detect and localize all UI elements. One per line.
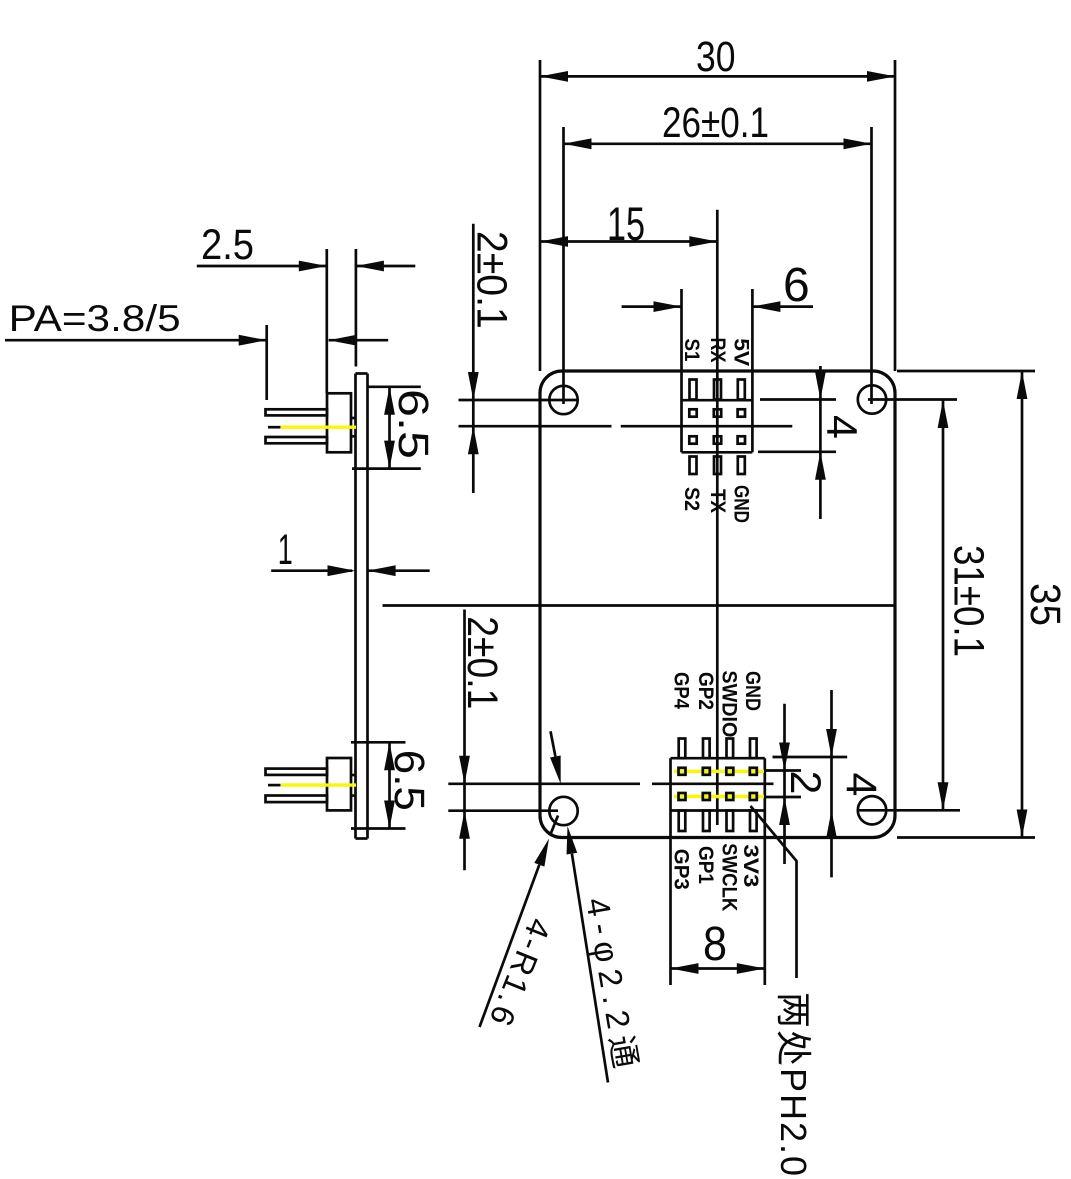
side top pin 1 (266, 409, 328, 415)
svg-text:6.5: 6.5 (385, 750, 433, 811)
dim 6.5 bottom: line + arrows (388, 742, 391, 828)
svg-text:1: 1 (278, 526, 293, 574)
svg-text:两处PH2.0: 两处PH2.0 (773, 992, 814, 1176)
header box sides (extend down as 8-dim extensions) (669, 758, 672, 985)
svg-text:5V: 5V (730, 338, 753, 366)
dim 31±0.1: line + arrows (942, 400, 945, 810)
dim 2±0.1 top: line + arrows (472, 224, 475, 493)
hole top-right (858, 385, 886, 413)
side bottom connector contact strip (351, 774, 356, 777)
svg-text:S2: S2 (680, 487, 703, 511)
side bottom pin 2 (266, 796, 328, 803)
side top connector contact strip (351, 417, 356, 420)
dim 15: line + arrows (540, 240, 717, 243)
side bottom connector block (327, 758, 351, 810)
bottom pads (679, 811, 686, 832)
pin squares row1 (679, 768, 686, 775)
dim PA=3.8/5: line + arrows (5, 339, 267, 342)
svg-text:GP1: GP1 (694, 846, 717, 884)
dim 4 bottom: line + arrows (830, 690, 833, 877)
dim 8: line + arrows (671, 967, 765, 970)
svg-text:26±0.1: 26±0.1 (662, 99, 769, 147)
svg-text:TX: TX (706, 489, 729, 513)
svg-text:4: 4 (837, 773, 885, 797)
header row centerline (459, 425, 612, 428)
leader 4-φ2.2通 line + arrow (572, 854, 608, 1083)
svg-text:GND: GND (741, 671, 764, 711)
dim 35: extension lines (897, 370, 1035, 373)
dim 4 top: line + arrows (819, 366, 822, 519)
svg-text:2.5: 2.5 (201, 221, 254, 269)
svg-text:2: 2 (781, 771, 829, 795)
dim 35: line + arrows (1021, 371, 1024, 838)
pin squares row1 (689, 409, 696, 416)
dim 6: line + arrows (622, 305, 682, 308)
pin squares row2 (689, 436, 696, 443)
board outline (rounded rect 30x35) (540, 371, 895, 838)
svg-text:8: 8 (703, 918, 727, 971)
mid-board seam line (383, 604, 895, 607)
dim 6.5 top: extension lines (368, 385, 421, 388)
hole bottom-right (858, 796, 886, 824)
dim 4 bottom: extension line (773, 756, 848, 759)
side board edge left (354, 374, 357, 839)
svg-text:6.5: 6.5 (389, 389, 437, 459)
dim 2.5: extension lines (325, 249, 328, 393)
dim 1: line + arrows (271, 569, 352, 572)
header box horizontals (671, 757, 765, 760)
side top pin dash (268, 426, 281, 429)
centerline h bottom-right hole + 31 extension (858, 809, 960, 812)
dim 6.5 bottom: extension lines (351, 741, 406, 744)
header vertical centerline (716, 210, 719, 825)
svg-text:2±0.1: 2±0.1 (468, 231, 516, 329)
svg-text:S1: S1 (680, 339, 703, 362)
header row centerline (448, 782, 640, 785)
side board bottom end (356, 837, 368, 840)
leader R1.6 overshoot inside hole (551, 816, 558, 834)
svg-text:30: 30 (696, 33, 736, 81)
pin squares row2 (679, 793, 686, 800)
dim 2±0.1 bottom: line + arrows (463, 610, 466, 871)
svg-text:4: 4 (818, 415, 866, 439)
svg-text:GP2: GP2 (694, 672, 717, 710)
svg-text:GP4: GP4 (670, 672, 693, 709)
top pads (679, 739, 686, 759)
svg-text:SWCLK: SWCLK (717, 843, 740, 911)
centerline h top-right hole + 31 extension (868, 398, 957, 401)
side board edge right (366, 374, 369, 839)
hole bottom-left (549, 797, 577, 825)
dim 4 top: extension line lower (758, 450, 836, 453)
leader PH2.0 diagonal + vertical (751, 806, 797, 978)
dim 2: extension lines (765, 769, 801, 772)
svg-text:PA=3.8/5: PA=3.8/5 (9, 298, 181, 339)
dim 26±0.1: line + arrows (564, 142, 872, 145)
side bottom pin dash (268, 784, 281, 787)
side top pin 2 (266, 437, 328, 443)
top pads (690, 380, 697, 400)
dim 30: extension lines (539, 60, 542, 371)
svg-text:GND: GND (730, 485, 753, 523)
svg-text:GP3: GP3 (670, 849, 693, 890)
svg-text:2±0.1: 2±0.1 (458, 616, 506, 709)
header box sides (680, 289, 683, 452)
leader PH2.0 stub arrow at row line (551, 731, 556, 756)
bottom pads (690, 457, 697, 475)
dim 4 top: extension line upper (shared with hole centerline) (760, 398, 836, 401)
dim PA=3.8/5: extension line at pin tips (265, 325, 268, 400)
dim 2.5: line + arrows (197, 265, 327, 268)
yellow row highlight 1 (674, 770, 764, 773)
side board top end (356, 372, 368, 375)
svg-text:31±0.1: 31±0.1 (945, 545, 993, 657)
leader 4-R1.6 line + arrow (480, 865, 540, 1027)
dim 2: line + arrows (783, 704, 786, 864)
yellow row highlight 2 (674, 795, 764, 798)
svg-text:35: 35 (1021, 583, 1069, 626)
side bottom pin 1 (266, 769, 328, 775)
svg-text:RX: RX (706, 338, 729, 363)
dim 26±0.1: extension lines (562, 127, 565, 404)
centerline h bottom-left hole / 2±0.1 extension (448, 809, 558, 812)
hole top-left (549, 386, 577, 414)
svg-text:SWDIO: SWDIO (717, 670, 740, 737)
svg-text:3V3: 3V3 (739, 844, 762, 887)
dim 6.5 top: line + arrows (388, 387, 391, 469)
svg-text:6: 6 (783, 259, 810, 312)
header box horizontals (682, 399, 753, 402)
side top yellow center pin (281, 426, 356, 429)
dim 30: line + arrows (540, 75, 895, 78)
side bottom yellow center pin (281, 783, 356, 786)
svg-text:15: 15 (607, 197, 645, 250)
centerline h top-left hole / 2±0.1 extension (459, 399, 579, 402)
side top connector block (327, 393, 351, 452)
